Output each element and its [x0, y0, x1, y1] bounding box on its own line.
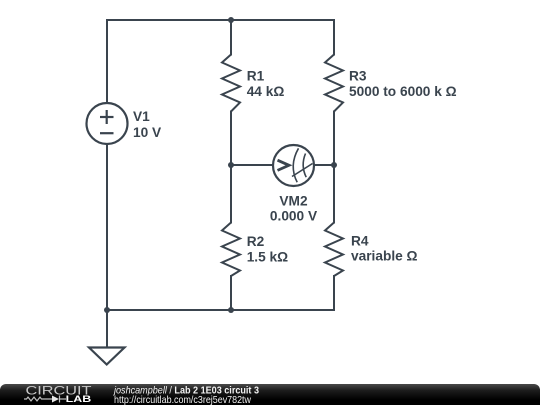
wire right vertical upper	[333, 20, 335, 55]
wire right vertical lower	[333, 276, 335, 310]
svg-text:10 V: 10 V	[133, 125, 162, 140]
wire left vertical upper	[106, 20, 108, 103]
wire bottom horizontal	[107, 309, 334, 311]
node bottom left junction	[104, 307, 110, 313]
node bottom middle junction	[228, 307, 234, 313]
wire middle vertical upper	[230, 20, 232, 55]
footer logo resistor-diode	[24, 396, 66, 403]
node VM2 right junction	[331, 162, 337, 168]
wire top horizontal	[107, 19, 334, 21]
resistor R1	[222, 55, 240, 112]
label VM2 value	[270, 194, 318, 224]
wire middle vertical lower	[230, 276, 232, 310]
svg-text:1.5 kΩ: 1.5 kΩ	[247, 250, 288, 265]
wire VM2 right	[314, 164, 334, 166]
svg-text:R4: R4	[351, 233, 369, 248]
svg-text:0.000 V: 0.000 V	[270, 208, 318, 223]
wire left vertical lower	[106, 145, 108, 311]
svg-text:LAB: LAB	[66, 394, 92, 404]
label R1 value	[247, 69, 285, 100]
svg-text:http://circuitlab.com/c3rej5ev: http://circuitlab.com/c3rej5ev782tw	[114, 395, 251, 405]
wire ground lead	[106, 310, 108, 348]
resistor R2	[222, 223, 240, 277]
svg-text:variable Ω: variable Ω	[351, 249, 418, 264]
label R3 value	[349, 69, 457, 100]
footer bar	[0, 384, 540, 405]
wire VM2 left	[231, 164, 273, 166]
resistor R3	[325, 55, 343, 112]
wire right vertical center	[333, 112, 335, 223]
svg-text:44 kΩ: 44 kΩ	[247, 84, 285, 99]
label R2 value	[247, 234, 288, 265]
svg-text:R1: R1	[247, 69, 265, 84]
node VM2 left junction	[228, 162, 234, 168]
svg-text:R3: R3	[349, 69, 367, 84]
wire middle vertical center	[230, 112, 232, 223]
ground	[89, 348, 125, 365]
svg-text:VM2: VM2	[279, 194, 308, 209]
resistor R4	[325, 223, 343, 277]
label R4 value	[351, 233, 418, 263]
svg-text:R2: R2	[247, 234, 265, 249]
node top junction	[228, 17, 234, 23]
voltage source V1	[87, 103, 128, 144]
label V1 value	[133, 109, 162, 140]
voltmeter VM2	[273, 145, 314, 186]
svg-text:5000 to 6000 k Ω: 5000 to 6000 k Ω	[349, 84, 457, 99]
svg-text:V1: V1	[133, 109, 150, 124]
